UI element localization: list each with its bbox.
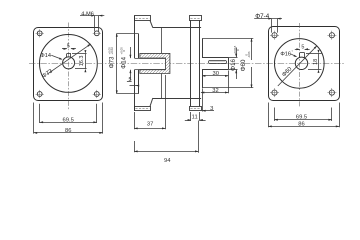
bottom-left ear (135, 107, 151, 111)
svg-text:69.5: 69.5 (296, 115, 307, 121)
svg-text:-0.06: -0.06 (247, 51, 251, 58)
corner hole M6 top-right (94, 31, 99, 36)
corner hole M6 top-left (37, 31, 42, 36)
svg-text:37: 37 (147, 122, 153, 128)
svg-text:69.5: 69.5 (63, 117, 74, 123)
bore circle phi14 (63, 57, 75, 69)
vertical centerline (68, 23, 70, 111)
internal step line (161, 28, 163, 54)
horizontal centerline across all views (29, 63, 345, 65)
svg-text:94: 94 (164, 158, 171, 164)
vertical centerline (299, 23, 301, 107)
dim 3 boss length (202, 88, 204, 111)
svg-text:3: 3 (210, 106, 213, 112)
shaft keyway slot (209, 61, 227, 64)
body top edge (153, 27, 201, 29)
svg-text:₊₄: ₊₄ (291, 49, 293, 52)
shaft circle phi16 (295, 57, 307, 69)
label phi73 diagonal leader (47, 44, 91, 74)
ear to body chamfer bottom (150, 98, 153, 106)
corner hole phi7 top-left (272, 33, 277, 38)
dim 86 bottom (268, 103, 270, 128)
dim 37 bottom (165, 75, 167, 129)
dim 86 bottom (33, 103, 35, 134)
output shaft (202, 57, 228, 59)
right flange plate (190, 20, 192, 106)
top-right ear (190, 16, 202, 21)
boss circle phi60 (275, 39, 325, 89)
rear boss face phi60 (202, 38, 204, 57)
dim 94 overall (134, 141, 136, 152)
body bottom edge (153, 98, 201, 100)
dim 30 shaft length (202, 75, 228, 77)
corner hole M6 bottom-right (94, 92, 99, 97)
dim 32 (228, 71, 230, 94)
svg-text:Φ16: Φ16 (280, 51, 291, 57)
corner hole phi7 top-right (329, 33, 334, 38)
dim phi14 left (130, 47, 132, 58)
svg-text:Φ73: Φ73 (108, 56, 115, 68)
label phi60 diagonal leader (278, 46, 317, 86)
svg-text:16.3: 16.3 (79, 56, 85, 67)
dim phi60 rear boss (251, 38, 253, 60)
svg-text:86: 86 (65, 128, 71, 134)
flange square outline (269, 27, 340, 101)
svg-text:32: 32 (212, 88, 218, 94)
dim 69.5 bottom (274, 108, 276, 122)
dim 16.3 vertical (72, 53, 87, 55)
dim 11 plate thickness (190, 112, 192, 121)
bottom-right ear (190, 107, 202, 111)
svg-text:Φ14: Φ14 (120, 56, 127, 68)
svg-text:86: 86 (298, 122, 304, 128)
hub hatched section (140, 53, 170, 73)
svg-text:Φ60: Φ60 (240, 59, 247, 71)
bore lines through face (134, 58, 165, 60)
dim 69.5 bottom (39, 104, 41, 123)
ear to body chamfer top (150, 20, 153, 27)
svg-text:18: 18 (313, 59, 319, 65)
corner hole phi7 bottom-right (329, 90, 334, 95)
corner hole phi7 bottom-left (272, 90, 277, 95)
svg-text:11: 11 (192, 115, 198, 121)
right flange view (254, 13, 339, 128)
svg-text:5: 5 (67, 44, 70, 50)
svg-text:Φ14: Φ14 (40, 53, 51, 59)
dim phi73 left (117, 33, 138, 35)
top-left ear (135, 16, 151, 21)
svg-text:+0.02: +0.02 (110, 47, 114, 55)
svg-text:30: 30 (212, 71, 218, 77)
svg-text:Φ16: Φ16 (230, 58, 237, 70)
middle section view (134, 16, 253, 112)
svg-text:5: 5 (129, 77, 132, 83)
dim phi16 shaft (229, 57, 238, 59)
pilot circle phi73 (40, 35, 98, 93)
svg-text:5: 5 (301, 44, 304, 50)
flange square outline (34, 28, 103, 101)
left flange view (34, 11, 105, 134)
corner hole M6 bottom-left (37, 92, 42, 97)
front face vertical line (134, 16, 136, 58)
phi73 boss edge line (138, 33, 140, 58)
keyway slot on bore (66, 54, 68, 58)
keyway slot (299, 53, 301, 58)
dim 18 vertical (306, 53, 322, 55)
phi60 extension lines (203, 38, 254, 40)
